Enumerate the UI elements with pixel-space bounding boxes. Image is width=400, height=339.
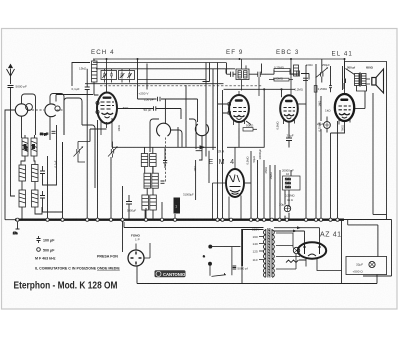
chassis ground bus <box>15 218 344 220</box>
capacitor 25uF <box>286 138 292 141</box>
capacitor 5000pF mains <box>233 266 237 269</box>
connector phono DIN <box>128 243 150 266</box>
capacitor trimmer padder 2 <box>108 142 118 158</box>
wire chain box <box>285 170 291 220</box>
capacitor 50uF EL41 cathode <box>324 122 331 129</box>
tube EBC3 <box>280 59 298 128</box>
coil L6 <box>32 190 39 207</box>
logo stamp <box>155 270 186 277</box>
capacitor trimmer EL41 grid <box>316 59 329 83</box>
wire coil returns <box>11 125 63 219</box>
resistor filled block <box>174 198 181 214</box>
variable capacitor tuning gang section 2 <box>45 104 60 117</box>
variable capacitor oscillator section <box>157 123 171 136</box>
tube EL41 <box>335 59 365 129</box>
transformer IF2 <box>236 59 249 91</box>
resistor R1 grid ECH4 <box>92 61 98 82</box>
capacitor 0,1uF <box>85 87 90 90</box>
capacitor EL41 grid <box>329 66 343 92</box>
coil L5 <box>19 190 26 207</box>
dashed AVC line <box>100 85 200 87</box>
wire transformer secondary taps <box>276 233 300 269</box>
wire bus thin extension <box>344 215 392 277</box>
wire EM4 chain verticals <box>196 135 280 219</box>
wire secondary top rail <box>85 63 226 84</box>
tube EF9 <box>228 91 249 128</box>
label taps <box>252 228 260 263</box>
transformer T2 output <box>355 73 371 87</box>
tube AZ41 rectifier <box>298 242 342 270</box>
capacitor trimmer padder 1 <box>74 142 91 163</box>
capacitor 32uF filter <box>346 257 387 275</box>
coil L3 <box>19 165 26 181</box>
wire EBC3 top area <box>224 63 309 148</box>
capacitor 30uF screen <box>284 205 290 211</box>
capacitor 50pF osc <box>117 106 181 119</box>
wire screen rail <box>96 68 235 70</box>
capacitor antenna 5000pF <box>8 86 14 151</box>
resistor EBC3 plate <box>294 65 299 76</box>
capacitor padder 1 <box>40 166 45 180</box>
coil L1 <box>22 138 28 156</box>
lamp pilot <box>293 247 299 253</box>
switch S1 mains <box>203 245 232 276</box>
junction dots AVC <box>263 88 265 90</box>
capacitor 200pF across primary <box>343 79 346 90</box>
arrow HV lead <box>297 226 301 229</box>
wire mid verticals to bus <box>48 110 176 252</box>
dashed gang link <box>28 110 166 182</box>
tube EM4 magic eye <box>213 147 245 219</box>
resistor 0,25M small <box>314 86 317 93</box>
legend symbol 1 <box>37 236 41 243</box>
resistor 0,05M horizontal <box>269 78 293 81</box>
capacitor 250pF osc <box>158 97 161 101</box>
wire antenna input loops <box>5 69 95 220</box>
capacitor on gang link <box>163 161 167 163</box>
junction dots on rail <box>106 58 346 60</box>
legend symbol 2 <box>37 248 41 252</box>
capacitor trimmer bank oscillator <box>101 69 135 83</box>
wire cathode left <box>90 129 107 142</box>
tube ECH4 <box>96 59 117 147</box>
wire IF line y147 <box>112 121 265 220</box>
variable capacitor trimmer circle <box>195 124 208 136</box>
capacitor padder 2 <box>40 191 45 204</box>
dark shield bar <box>241 229 243 266</box>
resistor 50k <box>243 128 257 131</box>
junction dots on bus <box>16 218 339 221</box>
speaker LS1 <box>372 69 384 93</box>
resistor 0,25M horizontal <box>274 69 290 72</box>
capacitor coupling 2 <box>297 71 300 77</box>
wire ECH4 top <box>72 59 99 95</box>
resistor bank lower <box>142 195 156 210</box>
transformer T1 primary taps <box>259 230 264 260</box>
capacitor IF2 right <box>249 72 266 96</box>
wire osc rail <box>137 79 206 81</box>
coil L2 <box>31 138 37 156</box>
resistor bank IF1 <box>141 154 156 167</box>
wire output loop <box>345 62 387 215</box>
wire power supply area <box>124 220 377 284</box>
resistor chain box <box>283 176 301 190</box>
capacitor coupling 3 <box>303 78 308 80</box>
ground chassis stub <box>13 222 20 235</box>
wire EF9 top area <box>203 63 262 221</box>
wire main B+ rail <box>93 58 345 60</box>
transformer T1 power <box>263 228 274 278</box>
variable capacitor tuning gang section 1 <box>15 104 32 117</box>
capacitor 5000pF fono <box>126 195 132 219</box>
wire oscillator section <box>138 59 198 152</box>
antenna A1 <box>7 65 15 85</box>
capacitor IF2 left <box>227 72 237 77</box>
resistor bank EM4 feed <box>144 173 165 188</box>
coil L4 <box>32 165 39 182</box>
wire EL41 area <box>306 59 392 284</box>
